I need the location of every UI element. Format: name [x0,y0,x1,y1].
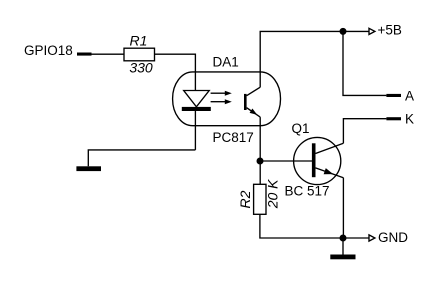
svg-text:PC817: PC817 [213,130,254,145]
ground left [76,166,101,171]
svg-text:+5B: +5B [378,23,402,38]
wire DA1 emitter down to node [259,117,261,184]
phototransistor emitter [247,108,261,117]
optocoupler U-body DA1 [173,72,281,126]
wire R1 to DA1 LED anode [155,54,196,90]
svg-text:R1: R1 [130,33,148,49]
terminal K [386,117,401,120]
wire node to Q1 base [260,160,312,162]
wire Q1 emitter to GND rail [342,178,344,238]
svg-text:R2: R2 [237,190,253,208]
phototransistor collector [247,87,261,96]
LED cathode bar [182,107,211,111]
wire DA1 collector to +5B rail [260,31,343,87]
Q1 collector [316,143,344,153]
svg-text:A: A [405,88,414,103]
junction node base [257,158,264,165]
LED anode triangle [184,91,210,107]
wire GPIO18 terminal to R1 [92,53,125,55]
wire junction to +5B terminal [343,30,369,32]
terminal GPIO18 [77,53,92,56]
resistor R1 [124,48,155,61]
wire junction to A terminal [343,31,386,95]
wire junction to GND terminal [343,237,369,239]
svg-text:DA1: DA1 [213,55,239,70]
svg-text:BC 517: BC 517 [285,183,330,198]
terminal A [386,94,401,97]
wire LED cathode inside body [194,111,196,150]
Q1 base bar [312,143,316,177]
svg-text:Q1: Q1 [292,121,310,136]
svg-text:20 K: 20 K [264,179,280,209]
light arrow 2 [211,99,232,104]
phototransistor emitter arrow [250,109,258,115]
resistor R2 [254,184,266,214]
svg-text:330: 330 [129,59,153,75]
wire junction to bottom ground [342,238,344,255]
light arrow 1 [211,91,232,96]
terminal +5B open arrow [369,28,375,34]
junction GND rail [340,235,347,242]
svg-text:GPIO18: GPIO18 [24,43,73,58]
ground bottom [330,255,355,260]
wire R2 to GND rail [260,214,343,238]
Q1 emitter [316,168,344,178]
wire K terminal to Q1 collector [343,119,386,144]
svg-text:GND: GND [378,230,408,245]
terminal GND open arrow [369,235,375,241]
wire cathode run to left ground [88,150,195,166]
transistor Q1 body [294,137,341,184]
phototransistor base bar [244,94,247,110]
junction +5B rail [340,28,347,35]
Q1 emitter arrow [324,168,334,174]
svg-text:K: K [405,111,414,126]
